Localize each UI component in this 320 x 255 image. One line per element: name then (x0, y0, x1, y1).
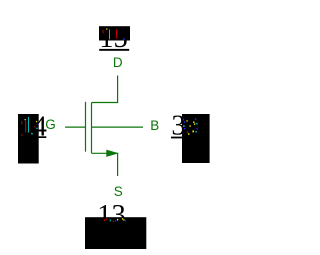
subpixel fringe specks in box 15 (103, 28, 125, 40)
svg-text:S: S (114, 184, 123, 199)
black highlight box over net 13 (85, 217, 146, 249)
subpixel fringe specks in box 14 (21, 117, 38, 136)
black highlight box over net 38 (182, 114, 210, 163)
transistor M1 source arrow (107, 150, 117, 156)
svg-text:D: D (113, 55, 123, 70)
transistor M1 drain wire (92, 76, 118, 103)
net number 14 underline (18, 136, 46, 138)
transistor M1 gate lead wire (65, 126, 85, 128)
transistor M1 body wire (92, 126, 144, 128)
svg-text:B: B (150, 118, 159, 133)
transistor M1 source wire (92, 153, 118, 176)
transistor M1 channel bar (91, 103, 93, 154)
subpixel fringe specks in box 13 (104, 218, 126, 222)
net number 15 underline (99, 49, 129, 51)
subpixel fringe specks in box 38 (183, 118, 198, 134)
net number 38 underline (171, 137, 199, 139)
transistor M1 gate bar (85, 102, 87, 152)
black highlight box over net 14 (18, 114, 39, 164)
net number 13 underline (97, 226, 125, 228)
black highlight box over net 15 (99, 26, 130, 40)
